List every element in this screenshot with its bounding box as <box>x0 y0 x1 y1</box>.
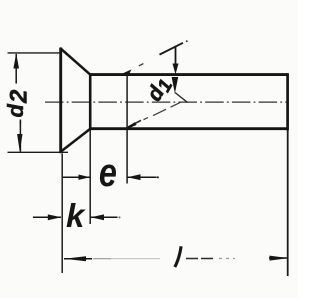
d2 arrow down <box>17 134 22 152</box>
l dimension line right arrow shaft <box>269 257 287 259</box>
d1 vertical arrow (down onto shank top) <box>173 64 179 75</box>
e right arrow <box>127 174 140 180</box>
l dimension line right dashes <box>186 258 216 260</box>
d1 vertical dimension line <box>175 46 177 65</box>
d1 wedge arrow below shank top <box>172 77 179 94</box>
left ext line under head (k,l) <box>61 154 63 274</box>
ext line at x=127 (e, d1 lower) <box>126 75 128 184</box>
d2 dimension line upper segment <box>15 54 17 84</box>
d1 lower leader (wedge tail to centerline) <box>175 93 188 103</box>
d2 dimension line lower segment <box>19 120 21 152</box>
d1 lower oblique arrow <box>126 122 137 128</box>
l left arrow <box>64 256 86 261</box>
head bottom cone edge <box>60 129 91 153</box>
k right arrow <box>91 214 104 220</box>
center line (axis) <box>45 101 287 103</box>
d1 upper oblique arrow <box>121 69 132 74</box>
k dimension line left piece <box>33 216 61 218</box>
l dimension line faint dots <box>219 258 235 260</box>
shank right end line <box>286 73 289 130</box>
k dimension line right piece <box>91 216 118 218</box>
head-shank junction line <box>89 73 92 130</box>
d2 arrow up <box>13 53 19 68</box>
d2 top extension line <box>8 52 61 54</box>
e dimension line left piece <box>63 176 90 178</box>
d2 bottom extension line <box>8 151 69 153</box>
e dimension line right piece <box>127 176 156 178</box>
d1 upper oblique dash-dot line <box>139 64 144 66</box>
l dimension line faded middle <box>93 258 111 260</box>
d1 lower oblique dash-dot line <box>128 120 141 127</box>
e left arrow <box>79 175 91 180</box>
svg-text:k: k <box>66 197 86 234</box>
k left arrow <box>48 214 62 220</box>
l dimension line left piece <box>64 258 92 260</box>
svg-text:e: e <box>99 150 117 195</box>
label d1 <box>143 73 178 107</box>
shank top line <box>89 73 289 76</box>
right ext line (l) <box>287 130 289 276</box>
label l <box>175 246 181 267</box>
shank bottom line <box>89 127 289 130</box>
head top cone edge <box>60 48 91 75</box>
head left face <box>59 48 62 154</box>
ext line at x=90 (e,k) <box>89 130 91 224</box>
label d2 <box>3 89 33 117</box>
l right arrow <box>270 256 289 261</box>
